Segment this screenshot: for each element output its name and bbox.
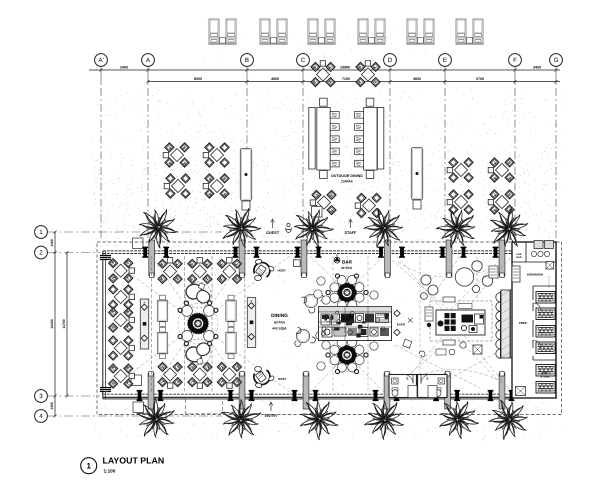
svg-text:1300: 1300 [50,239,54,247]
wall columns top cluster x=502 [493,247,499,258]
svg-text:11700: 11700 [62,319,66,328]
palm tree bottom 2 [212,392,268,448]
outdoor table left cluster (177,155) [163,143,189,167]
dim tick B [246,69,249,72]
bar seating ring around (347,355) [355,356,364,365]
palm tree top 1 [134,203,183,252]
GUEST entry arrow [272,220,274,228]
F&B station right [247,298,255,348]
service block outer wall [512,242,556,398]
svg-text:8000: 8000 [194,77,202,81]
dashed diagonal from (151,392) [151,324,198,393]
storage rack y=308 [536,308,555,320]
svg-text:4600: 4600 [413,77,421,81]
dim tick C [302,69,305,72]
svg-text:GUEST: GUEST [266,231,280,235]
svg-text:DISHWASH: DISHWASH [527,273,543,277]
banquet chair pair row 2 [330,124,363,131]
svg-text:3400: 3400 [533,65,541,69]
storage rack y=342 [536,342,555,354]
prep doors [533,303,541,311]
palm tree bottom 4 [362,399,406,442]
palm tree top 2 [217,206,264,252]
svg-text:14400: 14400 [50,319,54,329]
outdoor tables near grid line C-D [311,61,335,87]
center partitions [428,386,437,398]
bar mandala 2 [337,345,356,364]
svg-text:E: E [443,57,447,64]
cookline wall [501,290,510,358]
dining rect table (231,310.8) [226,295,236,326]
grid bubble B [241,54,254,238]
round side table near mandala (11,-12.6) [204,306,215,317]
svg-text:A: A [336,253,338,257]
outdoor table right cluster (461,170) [447,158,473,182]
grid bubble 2 [35,246,100,259]
lounge chair pair 4 [358,19,385,44]
palm tree bottom 3 [294,393,345,445]
dining pinwheel table north x=170.1 [158,258,182,284]
dim tick A' [100,69,103,72]
svg-text:C: C [301,57,306,64]
dim tick D [389,69,392,72]
wc left sink [392,378,399,384]
storage rack y=381.5 [536,382,555,394]
grid bubble D [384,54,397,238]
wall columns bottom cluster x=306 [292,390,298,401]
bar counter clutter [321,311,389,338]
outdoor table left cluster (178,186) [164,174,190,198]
svg-text:D: D [388,57,393,64]
palm tree top 3 [285,201,339,256]
dining table west column row 4 [109,336,135,360]
expo diamonds [394,310,400,316]
dashed diagonal from (106,392) [106,324,198,393]
wall columns top cluster x=449 [440,247,446,258]
dining rect table (231,343) [226,327,236,358]
lounge chair pair 3 [308,19,335,44]
dashed circles bar [331,276,364,309]
outdoor table right cluster (502,202) [488,190,514,214]
svg-text:STAFF: STAFF [345,231,358,235]
round tables right of left bay [302,294,324,313]
x-box [546,262,554,270]
svg-text:A': A' [98,57,103,64]
ENTRY arrow [270,403,272,411]
ceiling dashed verticals left bay [150,256,152,393]
dashed diagonal from (151,256) [151,256,198,324]
planter box [133,402,144,413]
palm tree top 6 [482,203,536,256]
planter box [133,238,144,249]
wall columns top cluster x=151.7 [142,247,148,258]
planter left [240,149,251,211]
banquet chair pair row 3 [330,136,363,143]
dish equipment [512,266,520,282]
bar seating ring around (347,292.5) [355,293,364,302]
sink circles [531,251,536,256]
lounge chair pair 5 [407,19,434,44]
corner column [100,387,112,392]
svg-text:G: G [554,57,559,64]
dining rect table (162.5,343) [157,327,167,358]
banquet chair pair row 5 [330,160,363,167]
kitchen small items [443,340,455,345]
grid bubble E [439,54,452,238]
kitchen island [436,310,485,335]
wall columns bottom cluster x=242 [228,390,234,401]
dining table west column row 3 [109,308,135,332]
svg-text:B: B [245,57,249,64]
grid bubble 4 [35,410,222,423]
bottom wall (dashed double) [103,393,512,395]
outdoor table left cluster (217,155) [203,143,229,167]
svg-text:F: F [144,301,146,305]
banquet chair pair row 1 [330,112,363,119]
storage rack y=364.5 [536,365,555,377]
wc right door [421,375,430,384]
grid bubble A' [95,54,108,238]
svg-text:BAR: BAR [516,256,521,259]
stipple texture [92,88,562,250]
steps dashed box [186,399,223,414]
round side table near mandala (11,12.4) [204,331,215,342]
outdoor tables below banquet [310,190,336,214]
palm tree bottom 6 [481,392,537,448]
wc left door [404,375,413,384]
lounge chair pair 6 [456,19,483,44]
svg-text:HOST: HOST [278,377,287,381]
dashed diagonal from (245,392) [198,324,245,393]
svg-text:5700: 5700 [476,77,484,81]
dining pinwheel table south x=229.4 [217,362,241,388]
svg-text:2: 2 [39,250,43,257]
extra bar stools [317,277,325,285]
dashed diagonal from (290,392) [198,324,290,393]
dashed diagonal from (290,256) [198,256,290,324]
wc left toilet [392,388,398,397]
dining pinwheel table north x=199.8 [188,258,212,284]
dashed diagonal from (106,256) [106,256,198,324]
kitchen left circles [421,275,431,285]
grid bubble 3 [35,390,100,403]
svg-text:HOST: HOST [278,269,287,273]
top grid dimension line 1 [89,69,560,71]
svg-text:1: 1 [39,229,43,236]
banquet chair pair row 4 [330,148,363,155]
grid bubble G [550,54,563,238]
dim tick F [514,69,517,72]
organic blob seats bottom [184,341,212,365]
mandala center dining [188,313,209,334]
dim tick G [555,69,558,72]
svg-text:4: 4 [39,413,43,420]
right wall [555,251,557,399]
storage rack y=291.5 [536,292,555,304]
svg-text:OUTDOOR DINING: OUTDOOR DINING [331,174,363,178]
svg-text:80 PAX: 80 PAX [274,321,286,325]
rooftop units [534,241,543,249]
wall columns bottom cluster x=502 [488,390,494,401]
svg-text:32 PAX: 32 PAX [341,266,353,270]
host station top [254,259,275,281]
left wall [102,251,104,399]
wall columns bottom cluster x=151 [137,390,143,401]
bar counter [319,307,392,341]
wall columns bottom cluster x=387 [373,390,379,401]
palm tree top 5 [431,203,483,254]
round side table near mandala (-11,-12.6) [182,306,193,317]
svg-text:LAYOUT PLAN: LAYOUT PLAN [103,456,165,466]
section marker A [334,253,340,263]
wc right sink [438,378,445,384]
svg-text:3: 3 [39,393,43,400]
planter box [131,375,142,386]
prep room walls [533,285,556,287]
storage rack y=325.5 [536,326,555,338]
grid bubble 1 [35,226,222,239]
dining table west column row 1 [109,259,135,283]
svg-text:PREP.: PREP. [519,321,528,325]
corner column [100,255,112,260]
cookline door arcs strip [496,293,501,359]
banquet long tables OUTDOOR DINING [309,98,384,178]
roof overhang dashed outline [97,242,562,415]
kitchen extra items [425,307,433,321]
svg-text:224PAX: 224PAX [341,180,354,184]
wall columns bottom cluster x=447.6 [433,390,439,401]
kitchen prep circles top [455,268,473,286]
top wall (dashed double) [103,250,556,252]
kitchen dashed flow lines [392,260,460,320]
host station bottom [254,366,275,388]
dim tick E [444,69,447,72]
dashed circles left bay [178,304,218,344]
diagonal dashed lines bar bay [310,256,347,292]
top grid dimension line 2 [148,81,560,83]
kitchen bay corner X dashed [397,256,510,390]
lounge chair pair 2 [260,19,287,44]
grid bubble F [509,54,522,238]
lounge chair pair 1 [209,19,236,44]
dining pinwheel table north x=229.4 [217,258,241,284]
dining table west column row 5 [109,364,135,388]
svg-text:EXPO: EXPO [397,323,406,327]
palm tree top 4 [356,200,412,256]
svg-text:1:100: 1:100 [104,468,116,473]
svg-text:1300: 1300 [50,402,54,410]
kitchen corridor dashes [395,345,480,388]
planter box [312,207,323,218]
wall columns top cluster x=387.5 [378,247,384,258]
svg-text:443 SQM.: 443 SQM. [272,327,287,331]
outdoor table right cluster (461,202) [447,190,473,214]
svg-text:F: F [251,299,253,303]
svg-text:DINING: DINING [271,313,288,319]
person glyph [286,223,292,232]
dining table west column row 2 [109,285,135,309]
title circled 1 [81,458,97,474]
svg-text:BAR: BAR [342,260,353,265]
small wall box [294,260,301,267]
organic blob seats top [184,282,212,305]
bar mandala 1 [337,283,356,302]
F&B station left [140,299,148,349]
dining pinwheel table south x=170.1 [158,362,182,388]
dim tick A [147,69,150,72]
svg-text:2400: 2400 [120,65,128,69]
svg-text:7100: 7100 [342,77,350,81]
kitchen dashed hood rect [430,301,492,341]
svg-text:4800: 4800 [271,77,279,81]
top room divider [512,261,556,263]
wall columns top cluster x=242 [233,247,239,258]
round side table near mandala (-11,12.4) [182,331,193,342]
dining rect table (162.5,310.8) [157,295,167,326]
wall columns top cluster x=304 [295,247,301,258]
dashed diagonal from (245,256) [198,256,245,324]
bar bay dashed verticals [332,256,334,392]
outdoor table right cluster (502,170) [488,158,514,182]
restrooms block [389,375,447,398]
svg-text:F: F [513,57,517,64]
left dimension line inner [66,253,68,397]
palm tree bottom 1 [128,392,184,448]
grid bubble C [297,54,310,238]
palm tree bottom 5 [432,393,483,445]
wc right toilet [435,388,441,397]
planter right [411,148,422,210]
dining pinwheel table south x=199.8 [188,362,212,388]
svg-text:19980: 19980 [340,65,350,69]
ac unit [516,387,526,396]
STAFF entry arrow [350,220,352,228]
grid bubble A [142,54,155,238]
svg-text:1: 1 [86,462,91,471]
outdoor table left cluster (217,186) [203,174,229,198]
svg-text:STORE: STORE [540,375,550,379]
left dimension line outer [54,232,56,416]
